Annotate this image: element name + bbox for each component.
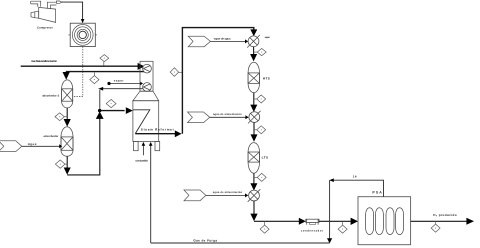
fuel stub wire	[142, 145, 144, 155]
reformer body	[133, 101, 159, 142]
arrow into reformer	[126, 107, 133, 114]
mixer M2	[248, 111, 261, 124]
diamond D10	[342, 221, 344, 225]
wire M1 to HTS	[253, 47, 255, 55]
wire PSA purge up and left	[333, 180, 384, 197]
node tee junction	[98, 109, 101, 112]
arrow fuel into reformer	[142, 142, 146, 146]
vessel V1 bed box with X	[62, 89, 73, 101]
svg-text:PSA: PSA	[372, 190, 382, 194]
arrow down onto purge header	[327, 238, 332, 243]
PSA bed capsule 4	[396, 208, 404, 235]
wire coil C2 return to tee	[102, 88, 143, 90]
svg-text:Agua: Agua	[27, 142, 37, 146]
arrow vapor into coil C2	[140, 82, 143, 86]
compressor K1 body	[39, 7, 56, 22]
wire purge gas riser to burners	[150, 145, 152, 243]
wire tee to reformer inlet	[100, 110, 125, 112]
wire compressor to blower	[62, 2, 83, 20]
blower B1 side ticks	[69, 34, 71, 36]
mixer M1	[247, 35, 260, 48]
svg-text:combustible: combustible	[135, 159, 148, 162]
blower B1 square	[70, 23, 95, 46]
SECTION: top-left compressor group	[31, 1, 97, 97]
reformer left leg	[134, 141, 139, 150]
coil circle C1	[143, 64, 152, 73]
arrow into blower	[81, 19, 85, 23]
svg-text:Compresor: Compresor	[37, 27, 53, 30]
mixer M3	[248, 189, 261, 202]
wire purge down	[329, 180, 331, 239]
svg-text:LTS: LTS	[262, 155, 269, 159]
SECTION: right column	[184, 35, 270, 202]
diamond D11	[435, 221, 437, 224]
wire LTS to M3	[253, 173, 255, 184]
vessel V2 bed box with X	[61, 137, 73, 150]
arrow into LTS	[251, 134, 258, 141]
vessel LTS bed box with X	[248, 152, 259, 162]
wire reformer outlet	[135, 133, 175, 135]
svg-text:HTS: HTS	[263, 76, 270, 80]
PSA bed capsule 2	[375, 208, 383, 235]
compressor K1 left elbow duct	[31, 4, 38, 7]
arrow into mixer M1	[245, 39, 248, 43]
wire M3 down to main line	[253, 201, 255, 214]
SECTION: psa and bottom	[151, 175, 474, 245]
svg-text:vapor: vapor	[265, 36, 270, 39]
arrow into condenser	[299, 218, 306, 225]
coil circle C2	[143, 83, 152, 92]
arrow up into tee	[96, 112, 104, 119]
PSA bed capsule 1	[366, 208, 374, 235]
wire line B coil C1 to vessel V1	[66, 71, 145, 73]
arrow down at corner	[250, 214, 257, 222]
svg-text:H₂ producido: H₂ producido	[433, 213, 457, 217]
wire M2 to LTS	[253, 123, 255, 135]
PSA box	[358, 197, 411, 245]
compressor K1 inlet cone	[31, 11, 39, 18]
diamond D12	[65, 163, 67, 165]
wire corner to tee	[67, 114, 100, 175]
diamond D2	[100, 55, 109, 66]
wire flag2 to mixer M2	[210, 116, 246, 118]
compressor K1 outlet flange arrow	[56, 1, 62, 3]
node vapor line start dot	[107, 82, 110, 85]
arrow into mixer M2	[245, 115, 248, 119]
arrow into PSA	[351, 218, 358, 225]
svg-text:Gas Natural alimentación: Gas Natural alimentación	[31, 60, 57, 63]
vessel HTS bed box with X	[248, 73, 259, 84]
wire crossover riser up and over to mixer M1	[182, 28, 253, 134]
reformer right leg	[155, 141, 160, 150]
diamond D8	[254, 176, 257, 178]
arrow outlet into riser	[175, 130, 182, 137]
stream flag Agua	[0, 141, 22, 152]
svg-text:14: 14	[353, 175, 357, 179]
reformer shoulder	[133, 91, 159, 101]
wire vapor to coil C2	[111, 83, 141, 85]
arrow into mixer M2	[250, 105, 257, 112]
SECTION: feed headers	[21, 55, 145, 84]
PSA bed capsule 3	[386, 208, 394, 235]
arrow into mixer M3	[250, 183, 257, 190]
diamond D9	[264, 221, 266, 225]
compressor K1 cone tick	[34, 12, 36, 18]
wire flag1 to mixer M1	[210, 40, 245, 42]
svg-text:vapor de agua: vapor de agua	[214, 37, 231, 40]
arrow down into mixer M1	[250, 29, 257, 36]
blower B1 concentric circles	[72, 25, 93, 46]
compressor K1 right elbow duct	[47, 2, 56, 8]
wire purge gas bottom header	[151, 242, 330, 244]
svg-text:vapor: vapor	[114, 79, 125, 83]
svg-text:Steam Reformer: Steam Reformer	[141, 128, 175, 132]
diamond D4	[179, 71, 183, 73]
reformer Z coil	[133, 110, 150, 134]
wire HTS to M2	[253, 93, 255, 106]
condenser E1	[306, 219, 319, 222]
SECTION: reformer	[133, 28, 257, 243]
wire flag3 to mixer M3	[206, 194, 245, 196]
wire condenser to PSA	[319, 220, 351, 222]
svg-text:Gas de Purga: Gas de Purga	[193, 238, 217, 242]
arrow H2 product	[466, 218, 474, 225]
diamond D1	[90, 72, 99, 83]
wire Agua flag to V2	[22, 145, 60, 147]
diamond D3	[106, 100, 116, 108]
arrow into V2 side	[59, 144, 62, 148]
arrow purge into reformer	[149, 142, 153, 146]
stream flag vapor de agua	[188, 36, 210, 47]
svg-text:adsorbedor S: adsorbedor S	[42, 95, 59, 98]
wire main line to condenser	[254, 220, 300, 222]
diamond D7	[254, 129, 257, 131]
arrow left at corner	[329, 178, 334, 182]
diamond D6	[254, 98, 257, 100]
vessel V2 adsorber shell	[61, 127, 73, 157]
svg-text:agua de alimentación: agua de alimentación	[213, 113, 242, 116]
stream flag agua alimentacion 2	[184, 190, 206, 201]
wire V1 to V2	[66, 108, 68, 120]
arrow into V2	[64, 119, 71, 127]
arrow down at corner	[64, 168, 71, 175]
diamond D13	[64, 116, 67, 118]
svg-text:adsorbedor: adsorbedor	[43, 135, 58, 138]
arrow into mixer M3	[245, 193, 248, 197]
vessel LTS shell	[248, 143, 259, 174]
vessel V1 adsorber shell	[62, 80, 73, 108]
wire V2 bottom to tee riser	[66, 156, 68, 168]
wire H2 product line	[411, 220, 467, 222]
arrow line A into coil circle C1	[138, 63, 145, 70]
vessel HTS shell	[248, 62, 259, 93]
stream flag agua alimentacion 1	[188, 112, 210, 123]
wire line A feed header	[21, 65, 138, 67]
diamond D5	[254, 51, 258, 53]
arrow line B down into vessel V1	[63, 72, 70, 80]
svg-text:agua de alimentación: agua de alimentación	[213, 191, 243, 194]
SECTION: left vessels	[0, 79, 143, 175]
arrow left at corner	[98, 87, 103, 91]
svg-text:condensador: condensador	[301, 230, 323, 233]
dashed signal line blower to vessel V1	[73, 47, 83, 97]
reformer furnace neck	[140, 61, 153, 91]
arrow into HTS	[250, 54, 257, 61]
